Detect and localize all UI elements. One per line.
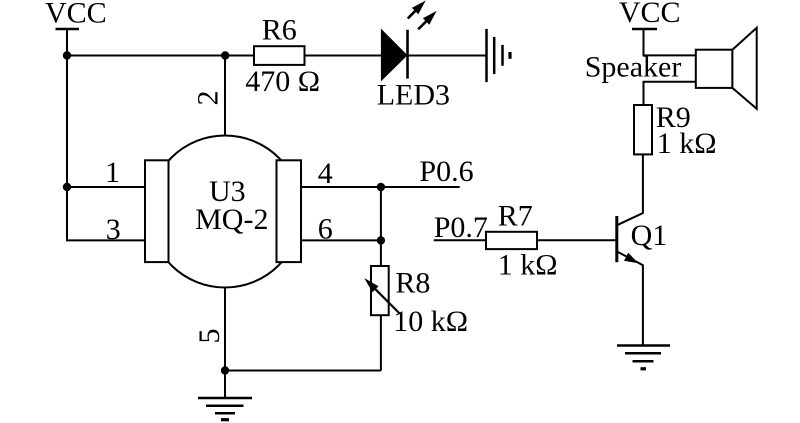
speaker body box [696, 50, 733, 88]
svg-text:Q1: Q1 [631, 219, 668, 252]
LED light arrow 1 [408, 1, 426, 19]
Q1 collector lead [617, 154, 643, 225]
speaker horn [732, 28, 756, 109]
svg-text:5: 5 [193, 329, 226, 344]
wire P0.7 lead [434, 239, 486, 241]
wire bottom rail [225, 370, 381, 372]
svg-text:2: 2 [192, 91, 225, 106]
wire pin 2 vertical [224, 56, 226, 137]
svg-text:VCC: VCC [45, 0, 107, 30]
LED D3 anode triangle [381, 29, 408, 82]
junction dot (pin1 / VCC) [63, 183, 71, 191]
svg-text:1: 1 [105, 156, 120, 189]
svg-text:P0.6: P0.6 [419, 155, 473, 188]
wire pin 5 vertical [224, 287, 226, 371]
svg-text:1 kΩ: 1 kΩ [498, 248, 558, 281]
svg-text:3: 3 [106, 213, 121, 246]
svg-text:6: 6 [318, 213, 333, 246]
svg-text:R6: R6 [262, 14, 297, 47]
junction dot (pin6 / R8) [377, 236, 385, 244]
LED light arrow 2 [418, 11, 436, 29]
wire top rail to R6 [67, 55, 254, 57]
wire R6 to LED3 [305, 55, 382, 57]
resistor R8 (variable) [371, 266, 389, 315]
wire ground stub [224, 371, 226, 399]
svg-text:10 kΩ: 10 kΩ [393, 305, 468, 338]
wire pin4 node down to R8 [380, 187, 382, 266]
wire speaker bottom to R9 [644, 82, 696, 105]
wire left vertical bus [66, 29, 68, 240]
transistor Q1 base bar [615, 216, 618, 262]
wire to P0.6 [381, 186, 460, 188]
svg-text:LED3: LED3 [377, 78, 450, 111]
LED D3 cathode bar [406, 30, 409, 79]
resistor R9 [634, 105, 652, 154]
junction dot (pin2 node) [221, 51, 229, 59]
sensor U3 MQ-2 body circle [149, 136, 301, 288]
wire LED3 to ground [408, 55, 487, 57]
wire pin 6 [301, 239, 382, 241]
ground (MQ-2) [198, 398, 252, 420]
Q1 emitter arrow [624, 253, 639, 264]
svg-text:P0.7: P0.7 [434, 211, 488, 244]
resistor R7 [486, 232, 537, 249]
junction dot (pin5 / ground) [221, 366, 229, 374]
R8 wiper arrow [364, 278, 399, 314]
ground (Q1 emitter) [617, 346, 670, 369]
svg-text:R7: R7 [498, 199, 533, 232]
svg-text:MQ-2: MQ-2 [195, 203, 268, 236]
junction dot (pin4 / P0.6) [377, 183, 385, 191]
power VCC bar (right) [632, 28, 657, 30]
svg-text:Speaker: Speaker [585, 51, 682, 84]
wire pin 3 [66, 239, 145, 241]
wire R8 bottom [380, 315, 382, 370]
resistor R6 [254, 46, 305, 65]
svg-text:VCC: VCC [619, 0, 681, 29]
svg-text:R8: R8 [395, 266, 430, 299]
svg-text:4: 4 [318, 157, 333, 190]
wire pin 4 [301, 186, 382, 188]
ground (LED, horizontal) [487, 29, 511, 82]
power VCC bar (left) [56, 28, 80, 30]
svg-text:1 kΩ: 1 kΩ [657, 127, 717, 160]
junction dot (VCC rail / R6 row) [63, 51, 71, 59]
Q1 emitter lead [617, 251, 643, 345]
electrode right [277, 160, 302, 262]
svg-text:470 Ω: 470 Ω [245, 65, 320, 98]
wire pin 1 [67, 186, 145, 188]
wire VCC to speaker top [644, 29, 696, 55]
wire R7 to Q1 base [537, 239, 617, 241]
electrode left [145, 160, 169, 262]
